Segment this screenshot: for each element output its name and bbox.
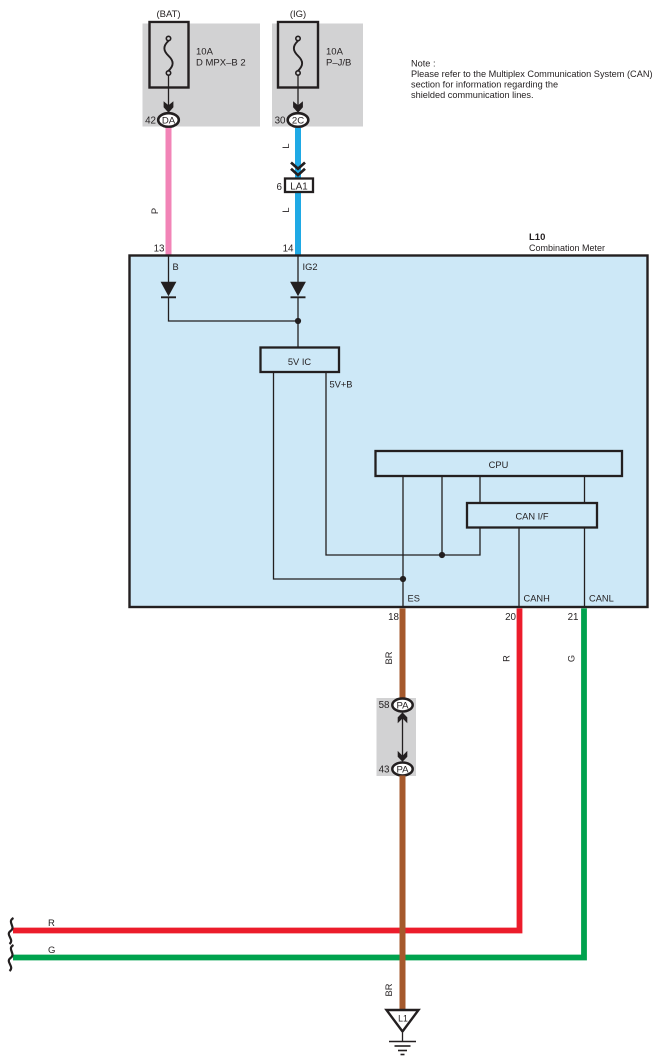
svg-text:CANH: CANH [524, 593, 550, 603]
component L10 label [529, 232, 605, 253]
svg-text:CANL: CANL [589, 593, 614, 603]
junction dot 5V+B line [439, 552, 445, 558]
svg-text:(IG): (IG) [290, 9, 306, 20]
wire CPU to ES pin 18 [402, 477, 404, 608]
pin number 21 [568, 612, 579, 623]
arrowhead up to connector PA 58 [398, 712, 408, 723]
arrowhead into connector 2C [293, 101, 303, 112]
wire color label BR (upper) [384, 651, 394, 664]
wire CPU to 5V+B net [441, 477, 443, 556]
combination meter L10 body [130, 256, 648, 608]
wire blue L from connector 2C to meter pin 14 [295, 128, 301, 256]
svg-text:G: G [48, 945, 55, 956]
pin name B [173, 262, 179, 272]
wire CPU to CAN I/F right [584, 477, 586, 504]
pin name CANL [589, 593, 614, 603]
splice chevron arrow [291, 163, 305, 176]
junction dot ES line [400, 576, 406, 582]
svg-text:R: R [48, 918, 55, 929]
svg-text:13: 13 [154, 243, 165, 254]
svg-text:5V+B: 5V+B [330, 380, 353, 390]
diode D1 [161, 282, 177, 298]
svg-text:R: R [502, 655, 512, 662]
diode D2 [290, 282, 306, 298]
svg-text:L1: L1 [398, 1014, 408, 1024]
wire color label G (vertical) [567, 655, 577, 662]
wire CAN I/F to CANL pin 21 [584, 528, 586, 608]
svg-text:L10: L10 [529, 232, 545, 243]
break symbol on R wire [9, 918, 14, 944]
svg-text:(BAT): (BAT) [156, 9, 180, 20]
svg-text:42: 42 [145, 115, 156, 126]
wire from diode D2 to 5V IC [297, 297, 299, 348]
pin 13 internal lead [168, 256, 170, 282]
svg-text:D MPX–B 2: D MPX–B 2 [196, 58, 246, 69]
wire from fuse F1 to connector DA [168, 75, 170, 110]
svg-text:Note :: Note : [411, 58, 436, 68]
svg-text:10A: 10A [326, 47, 344, 58]
connector LA1 pin 6 [277, 179, 313, 194]
svg-text:14: 14 [283, 243, 294, 254]
connector panel PA background [377, 698, 417, 776]
svg-text:Combination Meter: Combination Meter [529, 243, 605, 253]
break symbol on G wire [9, 945, 14, 971]
fuse F2 10A P-J/B [278, 22, 318, 88]
wire color label L (upper) [281, 143, 291, 148]
connector PA pin 58 [379, 699, 413, 712]
wire CAN I/F to CANH pin 20 [518, 528, 520, 608]
svg-text:IG2: IG2 [303, 262, 318, 272]
svg-text:L: L [281, 207, 291, 212]
svg-text:Please refer to the Multiplex: Please refer to the Multiplex Communicat… [411, 69, 653, 79]
pin name IG2 [303, 262, 318, 272]
svg-text:BR: BR [384, 651, 394, 664]
junction block panel (IG fuse background) [272, 24, 363, 127]
svg-text:LA1: LA1 [290, 181, 307, 192]
svg-text:ES: ES [408, 593, 420, 603]
pin number 18 [388, 612, 399, 623]
pin 14 internal lead [297, 256, 299, 282]
wire label G [48, 945, 55, 956]
svg-text:section for information regard: section for information regarding the [411, 80, 558, 90]
svg-text:21: 21 [568, 612, 579, 623]
note text [411, 58, 653, 100]
pin name CANH [524, 593, 550, 603]
svg-text:G: G [567, 655, 577, 662]
svg-text:B: B [173, 262, 179, 272]
wire brown BR lower segment to ground [400, 776, 406, 1010]
svg-text:BR: BR [384, 983, 394, 996]
svg-text:43: 43 [379, 765, 390, 776]
svg-text:30: 30 [275, 115, 286, 126]
label (IG) [290, 9, 306, 20]
svg-text:6: 6 [277, 182, 283, 193]
svg-text:20: 20 [505, 612, 516, 623]
CAN I/F block [467, 503, 597, 528]
fuse F1 10A D MPX-B 2 [150, 22, 189, 88]
wire from diode D1 to junction [169, 297, 299, 321]
wire color label P [150, 208, 160, 214]
pin name ES [408, 593, 420, 603]
svg-text:PA: PA [396, 700, 409, 711]
arrowhead into connector DA [164, 101, 174, 112]
wire between PA connectors [402, 716, 404, 758]
wire brown BR upper segment from pin 18 [400, 608, 406, 707]
net label 5V+B [330, 380, 353, 390]
svg-text:DA: DA [162, 116, 176, 127]
arrowhead down to connector PA 43 [398, 751, 408, 762]
connector PA pin 43 [379, 763, 413, 776]
regulator 5V IC [261, 348, 340, 373]
svg-text:5V IC: 5V IC [288, 357, 312, 367]
wire CPU to CAN I/F left [479, 477, 481, 504]
svg-text:P: P [150, 208, 160, 214]
svg-text:10A: 10A [196, 47, 214, 58]
wire pink P from connector DA to meter pin 13 [166, 128, 172, 256]
label (BAT) [156, 9, 180, 20]
svg-text:58: 58 [379, 700, 390, 711]
junction block panel (BAT fuse background) [143, 24, 261, 127]
svg-text:shielded communication lines.: shielded communication lines. [411, 90, 534, 100]
wire green G from pin 21 CANL [13, 608, 584, 957]
svg-text:PA: PA [396, 764, 409, 775]
pin number 14 [283, 243, 294, 254]
wire 5V+B from 5V IC to CAN I/F [326, 373, 480, 556]
svg-text:L: L [281, 143, 291, 148]
wire 5V IC left output to ES line [274, 373, 404, 580]
svg-text:2C: 2C [292, 116, 304, 127]
wire color label BR (lower) [384, 983, 394, 996]
svg-text:P–J/B: P–J/B [326, 58, 351, 69]
fuse F2 value label 10A / P-J/B [326, 47, 351, 69]
connector DA pin 42 [145, 113, 179, 127]
wire color label L (lower) [281, 207, 291, 212]
pin number 20 [505, 612, 516, 623]
junction dot at diode join [295, 318, 301, 324]
ground L1 [387, 1010, 419, 1055]
fuse F1 value label 10A / D MPX-B 2 [196, 47, 246, 69]
wire color label R (vertical) [502, 655, 512, 662]
svg-text:CAN I/F: CAN I/F [515, 512, 548, 522]
CPU block [376, 451, 623, 476]
wire label R [48, 918, 55, 929]
connector 2C pin 30 [275, 113, 309, 127]
wire red R from pin 20 CANH [13, 608, 520, 930]
wire from fuse F2 to connector 2C [297, 75, 299, 110]
svg-text:18: 18 [388, 612, 399, 623]
svg-text:CPU: CPU [489, 460, 509, 470]
pin number 13 [154, 243, 165, 254]
